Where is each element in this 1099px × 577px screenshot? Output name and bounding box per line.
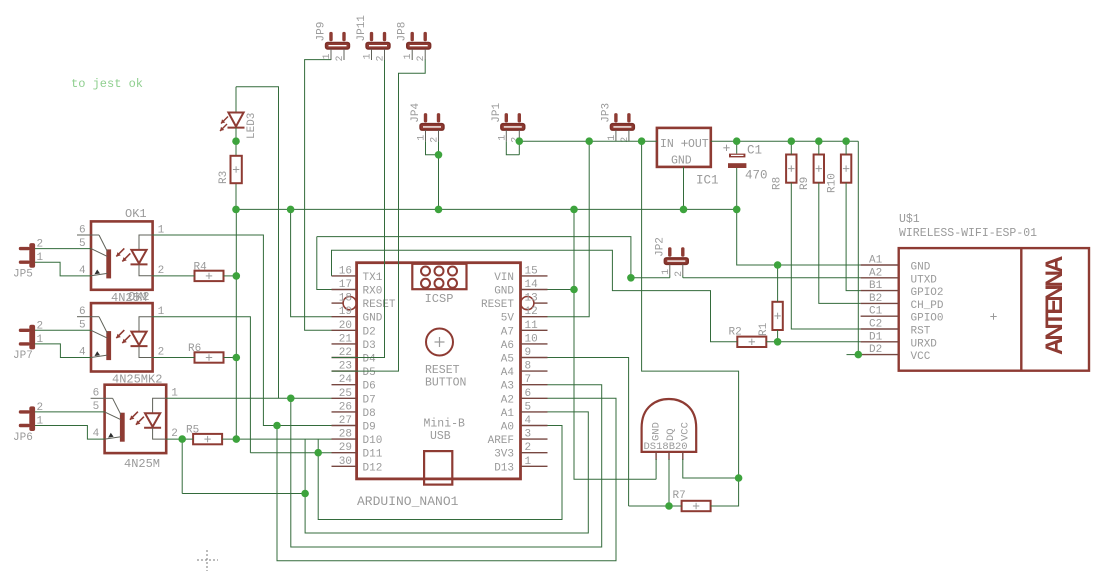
junction at (305.1,493.5): [301, 490, 309, 498]
svg-text:7: 7: [525, 374, 532, 386]
svg-text:D11: D11: [363, 449, 383, 461]
pin 11 (A7) of ARDUINO_NANO1: [521, 329, 548, 331]
wire C1 top: [736, 141, 738, 153]
wire stub at ESP VCC: [847, 354, 859, 356]
svg-text:R3: R3: [218, 171, 230, 184]
junction at (791.3,141.2): [788, 137, 796, 145]
wire R5 left to OK3 pin2: [166, 438, 193, 440]
wire JP1 pin2 stub down: [518, 141, 520, 155]
junction at (290.6,209.4): [287, 206, 295, 214]
svg-text:D4: D4: [363, 354, 377, 366]
svg-text:VIN: VIN: [494, 272, 514, 284]
wire IN net row: [519, 140, 657, 142]
svg-text:GND: GND: [911, 262, 931, 274]
svg-text:ICSP: ICSP: [425, 292, 454, 306]
junction at (641.6,141.2): [638, 137, 646, 145]
svg-text:IN: IN: [660, 138, 674, 151]
optocoupler OK2 (4N25M): [77, 303, 153, 371]
svg-text:29: 29: [339, 442, 352, 454]
svg-text:6: 6: [79, 224, 86, 236]
svg-text:2: 2: [620, 137, 631, 143]
svg-text:R6: R6: [188, 343, 201, 355]
pin 7 (A3) of ARDUINO_NANO1: [521, 384, 548, 386]
svg-text:6: 6: [525, 388, 532, 400]
wire R4 right stub: [224, 275, 237, 277]
wire D11 row: [250, 452, 331, 454]
connector JP2: [654, 237, 688, 277]
svg-text:25: 25: [339, 388, 352, 400]
svg-text:D2: D2: [869, 344, 882, 356]
junction at (277,425.5): [273, 422, 281, 430]
pin 13 (RESET) of ARDUINO_NANO1: [535, 302, 548, 304]
svg-text:URXD: URXD: [911, 338, 938, 350]
svg-text:A0: A0: [501, 422, 514, 434]
svg-text:A2: A2: [869, 267, 882, 279]
wire JP11 pin2 to D4: [332, 60, 385, 358]
ICSP header inside Arduino: [412, 264, 466, 306]
svg-text:RESET: RESET: [363, 299, 396, 311]
pin 2 (3V3) of ARDUINO_NANO1: [521, 452, 548, 454]
junction at (736.7,209.4): [733, 206, 741, 214]
connector JP6: [13, 402, 44, 444]
svg-text:4: 4: [79, 347, 86, 359]
wire URXD row (D1): [766, 341, 860, 343]
wire DQ to R7 junction: [668, 459, 670, 506]
svg-text:VCC: VCC: [680, 422, 692, 441]
junction at (858.3,354.6): [855, 351, 863, 359]
wire 5V to IN net: [548, 141, 590, 317]
junction at (589.2,141.2): [585, 137, 593, 145]
wire R10 bottom to GPIO2: [846, 183, 861, 291]
pin 22 (D4) of ARDUINO_NANO1: [332, 357, 357, 359]
junction at (574,289.5): [570, 286, 578, 294]
connector JP1: [491, 102, 525, 142]
resistor R8: [772, 155, 797, 191]
svg-text:A5: A5: [501, 354, 514, 366]
svg-text:B2: B2: [869, 293, 882, 305]
wire R1 top to GND row: [777, 265, 779, 302]
pin 29 (D11) of ARDUINO_NANO1: [332, 452, 357, 454]
pin 21 (D3) of ARDUINO_NANO1: [332, 343, 357, 345]
svg-text:28: 28: [339, 429, 352, 441]
svg-text:19: 19: [339, 306, 352, 318]
RESET BUTTON inside Arduino: [425, 329, 466, 390]
svg-text:D3: D3: [363, 340, 376, 352]
pin 15 (VIN) of ARDUINO_NANO1: [521, 275, 548, 277]
wire D11 drop to bundle b1 (to A0): [318, 426, 562, 520]
wire JP7 pin1 to OK2 pin4: [35, 344, 91, 358]
pin B2 of U$1: [861, 302, 899, 304]
pin 1 (D13) of ARDUINO_NANO1: [521, 465, 548, 467]
pin D1 of U$1: [861, 341, 899, 343]
svg-text:DS18B20: DS18B20: [644, 441, 688, 453]
junction at (669,506): [665, 502, 673, 510]
svg-text:R2: R2: [729, 327, 742, 339]
svg-text:IC1: IC1: [696, 174, 719, 188]
resistor R7: [673, 490, 711, 511]
wire C1 bottom to bus to ESP GND (A1): [737, 168, 861, 265]
junction at (818.8,141.2): [815, 137, 823, 145]
pin 27 (D9) of ARDUINO_NANO1: [332, 425, 357, 427]
svg-text:4N25MK2: 4N25MK2: [112, 373, 162, 387]
svg-text:27: 27: [339, 415, 352, 427]
svg-text:R7: R7: [673, 490, 686, 502]
pin 20 (D2) of ARDUINO_NANO1: [332, 329, 357, 331]
wire JP8 pin2 to D5: [332, 60, 426, 372]
svg-text:R4: R4: [194, 262, 208, 274]
svg-text:26: 26: [339, 401, 352, 413]
wire OK1 pin1 to D9: [153, 235, 332, 426]
wire LED3 loop top: [236, 87, 279, 399]
connector JP11: [356, 15, 390, 62]
svg-text:D1: D1: [869, 331, 883, 343]
svg-text:14: 14: [525, 279, 539, 291]
resistor R9: [799, 155, 824, 191]
junction at (630.9,277.8): [627, 274, 635, 282]
junction at (236.3,275.9): [233, 272, 241, 280]
svg-text:2: 2: [158, 265, 165, 277]
svg-text:CH_PD: CH_PD: [911, 300, 944, 312]
junction at (438.5,154.8): [435, 151, 443, 159]
wire R5 net vertical: [181, 439, 183, 493]
svg-text:A3: A3: [501, 381, 514, 393]
svg-text:A6: A6: [501, 340, 514, 352]
LED LED3: [220, 87, 258, 156]
junction at (736.7,141.2): [733, 137, 741, 145]
pin D2 of U$1: [861, 354, 899, 356]
resistor R5: [186, 425, 222, 445]
svg-text:RX0: RX0: [363, 286, 383, 298]
pin 10 (A6) of ARDUINO_NANO1: [521, 343, 548, 345]
wire D9 drop to bundle b4 (to A3): [277, 398, 616, 561]
svg-text:C1: C1: [869, 306, 883, 318]
svg-text:4: 4: [79, 265, 86, 277]
svg-text:D10: D10: [363, 435, 383, 447]
wire pin19 GND: [291, 209, 332, 316]
pin 28 (D10) of ARDUINO_NANO1: [332, 438, 357, 440]
svg-text:TX1: TX1: [363, 272, 383, 284]
pin C2 of U$1: [861, 328, 899, 330]
pin 4 (A0) of ARDUINO_NANO1: [521, 425, 548, 427]
wire R10 top: [845, 141, 847, 154]
svg-text:4: 4: [525, 415, 532, 427]
wire TX1 to R2 (level shifter): [332, 250, 738, 342]
svg-text:GPIO0: GPIO0: [911, 313, 944, 325]
resistor R4: [194, 262, 224, 282]
junction at (318.2,452.7): [314, 449, 322, 457]
pin 6 (A2) of ARDUINO_NANO1: [521, 397, 548, 399]
wire R6 right stub: [224, 357, 237, 359]
svg-text:WIRELESS-WIFI-ESP-01: WIRELESS-WIFI-ESP-01: [899, 227, 1037, 240]
wire OUT net row: [711, 140, 859, 142]
resistor R10: [826, 155, 851, 194]
svg-text:LED3: LED3: [246, 113, 258, 139]
pin 12 (5V) of ARDUINO_NANO1: [521, 316, 548, 318]
pin 8 (A4) of ARDUINO_NANO1: [521, 370, 548, 372]
pin 17 (RX0) of ARDUINO_NANO1: [332, 289, 357, 291]
svg-text:5: 5: [525, 401, 532, 413]
junction at (290.8,398.3): [287, 395, 295, 403]
svg-text:JP11: JP11: [356, 15, 368, 42]
pin 18 (RESET) of ARDUINO_NANO1: [332, 302, 343, 304]
svg-text:OK1: OK1: [125, 207, 147, 221]
svg-text:A4: A4: [501, 367, 515, 379]
svg-text:2: 2: [335, 55, 346, 61]
capacitor C1 (polarized, 470): [723, 144, 767, 183]
resistor R3: [218, 156, 242, 210]
svg-text:JP2: JP2: [654, 237, 666, 257]
svg-text:A1: A1: [869, 255, 883, 267]
svg-text:6: 6: [93, 388, 100, 400]
svg-text:9: 9: [525, 347, 532, 359]
svg-text:VCC: VCC: [911, 351, 931, 363]
resistor R2: [729, 327, 767, 348]
junction at (236,209.4): [232, 206, 240, 214]
pin 26 (D8) of ARDUINO_NANO1: [332, 411, 357, 413]
svg-text:DQ: DQ: [665, 428, 677, 441]
connector JP5: [13, 239, 44, 281]
pin 30 (D12) of ARDUINO_NANO1: [332, 465, 357, 467]
svg-text:18: 18: [339, 293, 352, 305]
svg-text:UTXD: UTXD: [911, 274, 938, 286]
IC ARDUINO_NANO1: [332, 263, 548, 479]
svg-text:OK2: OK2: [128, 290, 150, 304]
WiFi module U$1 WIRELESS-WIFI-ESP-01: [861, 213, 1089, 371]
svg-text:R8: R8: [772, 177, 784, 190]
svg-text:8: 8: [525, 361, 532, 373]
svg-text:R1: R1: [758, 322, 770, 336]
pin 5 (A1) of ARDUINO_NANO1: [521, 411, 548, 413]
connector JP7: [13, 320, 44, 362]
svg-text:2: 2: [171, 428, 178, 440]
wire JP6 pin2 to OK3 pin5: [35, 411, 105, 413]
junction at (777.6,265): [774, 261, 782, 269]
svg-text:D12: D12: [363, 462, 383, 474]
temperature sensor DS18B20: [642, 399, 697, 460]
svg-text:RESET: RESET: [481, 299, 514, 311]
svg-text:GND: GND: [671, 155, 692, 168]
wire R1 bottom to URXD row: [777, 330, 779, 342]
junction at (236.3,357.5): [233, 354, 241, 362]
connector JP4: [410, 102, 444, 142]
connector JP8: [397, 22, 431, 62]
wire DS18B20 VCC pin: [683, 459, 739, 478]
junction at (846.1,141.2): [842, 137, 850, 145]
svg-text:JP9: JP9: [316, 22, 328, 42]
svg-text:17: 17: [339, 279, 352, 291]
svg-text:JP8: JP8: [397, 22, 409, 42]
svg-text:ARDUINO_NANO1: ARDUINO_NANO1: [357, 494, 459, 509]
junction at (236.3,439.1): [233, 435, 241, 443]
wire GND bus: [236, 208, 737, 210]
svg-text:R5: R5: [186, 425, 199, 437]
svg-text:JP5: JP5: [13, 269, 33, 281]
pin 23 (D5) of ARDUINO_NANO1: [332, 370, 357, 372]
svg-text:AREF: AREF: [488, 435, 514, 447]
svg-text:B1: B1: [869, 280, 883, 292]
wire R8 bottom to RST: [791, 183, 860, 329]
wire R6 left to OK2 pin2: [153, 357, 195, 359]
svg-text:JP1: JP1: [491, 102, 503, 122]
pin 16 (TX1) of ARDUINO_NANO1: [332, 275, 357, 277]
resistor R1: [758, 302, 783, 336]
pin B1 of U$1: [861, 290, 899, 292]
svg-text:1: 1: [497, 135, 508, 141]
svg-text:4: 4: [93, 428, 100, 440]
wire R9 top: [818, 141, 820, 154]
wire R9 bottom to CH_PD: [819, 183, 861, 304]
svg-text:1: 1: [607, 135, 618, 141]
svg-text:470: 470: [745, 169, 768, 183]
svg-text:16: 16: [339, 265, 352, 277]
svg-text:A7: A7: [501, 326, 514, 338]
junction at (777.6,341.8): [774, 338, 782, 346]
Mini-B USB inside Arduino: [424, 418, 466, 485]
svg-text:D6: D6: [363, 381, 376, 393]
wire R7 row: [629, 505, 682, 507]
wire R5 row to D11 corner: [222, 438, 331, 440]
junction at (182.2,439.1): [178, 435, 186, 443]
wire VCC net down to ESP VCC (D2): [858, 141, 860, 354]
wire JP2 stub extensions: [670, 275, 683, 278]
wire JP1 pin1 jog: [506, 141, 519, 155]
svg-text:D7: D7: [363, 394, 376, 406]
wire net D7 drop to bundle b3: [291, 385, 602, 547]
svg-text:D2: D2: [363, 326, 376, 338]
wire JP7 pin2 to OK2 pin5: [35, 329, 91, 331]
optocoupler OK1 (4N25M): [77, 221, 153, 289]
svg-text:D5: D5: [363, 367, 376, 379]
pin 19 (GND) of ARDUINO_NANO1: [332, 316, 357, 318]
svg-text:10: 10: [525, 333, 538, 345]
svg-text:5: 5: [79, 238, 86, 250]
svg-text:C2: C2: [869, 319, 882, 331]
svg-text:GND: GND: [651, 422, 663, 441]
svg-text:USB: USB: [430, 430, 451, 443]
wire JP6 pin1 to OK3 pin4: [35, 426, 105, 440]
svg-text:R10: R10: [826, 173, 838, 193]
svg-text:21: 21: [339, 333, 353, 345]
junction at (574,209.4): [570, 206, 578, 214]
svg-text:D8: D8: [363, 408, 376, 420]
wire RX0 to JP2 pin1: [317, 237, 670, 278]
svg-text:3: 3: [525, 429, 532, 441]
pin A2 of U$1: [861, 277, 899, 279]
svg-text:1: 1: [363, 53, 374, 59]
svg-text:1: 1: [417, 135, 428, 141]
svg-text:A1: A1: [501, 408, 515, 420]
wire IC1 GND pin to bus: [683, 167, 685, 210]
wire JP5 pin2 to OK1 pin5: [35, 248, 91, 250]
svg-text:JP7: JP7: [13, 350, 33, 362]
svg-text:1: 1: [322, 53, 333, 59]
pin 9 (A5) of ARDUINO_NANO1: [521, 357, 548, 359]
svg-text:2: 2: [158, 347, 165, 359]
pin C1 of U$1: [861, 315, 899, 317]
optocoupler OK3 (4N25M): [91, 385, 167, 453]
wire JP2 pin2 to UTXD: [683, 277, 861, 279]
mouse cursor crosshair: [197, 550, 218, 571]
svg-text:12: 12: [525, 306, 538, 318]
svg-text:C1: C1: [747, 144, 762, 158]
svg-text:24: 24: [339, 374, 353, 386]
svg-text:5V: 5V: [501, 313, 515, 325]
junction at (438.5,209.4): [435, 206, 443, 214]
pin A1 of U$1: [861, 264, 899, 266]
svg-text:to jest ok: to jest ok: [71, 77, 143, 91]
wire dotC vertical to bundle b2 (to A4): [305, 412, 588, 533]
svg-text:GPIO2: GPIO2: [911, 287, 944, 299]
wire JP5 pin1 to OK1 pin4: [35, 262, 91, 276]
pin 14 (GND) of ARDUINO_NANO1: [521, 289, 548, 291]
pin 24 (D6) of ARDUINO_NANO1: [332, 384, 357, 386]
svg-text:Mini-B: Mini-B: [424, 418, 466, 431]
svg-text:D13: D13: [494, 462, 514, 474]
svg-text:JP4: JP4: [410, 102, 422, 122]
svg-text:1: 1: [403, 53, 414, 59]
wire JP9 pin1 to D2: [305, 60, 332, 331]
svg-text:U$1: U$1: [899, 213, 920, 226]
svg-text:30: 30: [339, 456, 352, 468]
svg-text:JP3: JP3: [600, 103, 612, 123]
svg-text:BUTTON: BUTTON: [425, 377, 466, 390]
svg-text:3V3: 3V3: [494, 449, 514, 461]
wire R8 top: [790, 141, 792, 154]
wire IN net down to DS18B20 VCC: [642, 141, 739, 506]
wire V1 resistor common to GND bus: [235, 209, 237, 439]
wire GND to sensor: [574, 209, 656, 479]
wire R4 left to OK1 pin2: [153, 275, 195, 277]
wire JP7 net row to dotC: [182, 493, 305, 495]
pin 25 (D7) of ARDUINO_NANO1: [332, 397, 357, 399]
svg-text:GND: GND: [363, 313, 383, 325]
svg-text:D9: D9: [363, 422, 376, 434]
svg-text:A2: A2: [501, 394, 514, 406]
pin 3 (AREF) of ARDUINO_NANO1: [521, 438, 548, 440]
wire JP4 pin1 jog: [426, 141, 439, 155]
svg-text:15: 15: [525, 265, 538, 277]
svg-text:ANTENNA: ANTENNA: [1041, 256, 1068, 355]
svg-text:20: 20: [339, 320, 352, 332]
junction at (236,141.2): [232, 137, 240, 145]
svg-text:2: 2: [525, 442, 532, 454]
junction at (738.6,478): [735, 474, 743, 482]
svg-text:11: 11: [525, 320, 539, 332]
svg-text:1: 1: [525, 456, 532, 468]
wire DS18B20 GND pin: [655, 459, 657, 479]
svg-text:RESET: RESET: [425, 364, 460, 377]
svg-text:1: 1: [661, 269, 672, 275]
wire A5 to R7 junction: [548, 358, 629, 507]
svg-text:OUT: OUT: [688, 138, 709, 151]
connector JP3: [600, 103, 634, 143]
junction at (519.3,141.2): [516, 137, 524, 145]
resistor R6: [188, 343, 224, 363]
svg-text:GND: GND: [494, 286, 514, 298]
svg-text:R9: R9: [799, 177, 811, 190]
wire RX0 up: [317, 237, 332, 290]
wire OK2 pin1 to D11: [153, 317, 251, 453]
wire pin14 GND: [548, 289, 575, 291]
wire net D7 row (OK3 pin1 to pin25): [166, 397, 331, 399]
svg-text:JP6: JP6: [13, 432, 33, 444]
wire JP4 pin2 to GND bus: [438, 141, 440, 209]
svg-text:RST: RST: [911, 326, 931, 338]
junction at (683.5,209.4): [680, 206, 688, 214]
voltage regulator IC1: [657, 128, 719, 188]
svg-text:13: 13: [525, 293, 538, 305]
svg-text:6: 6: [79, 306, 86, 318]
